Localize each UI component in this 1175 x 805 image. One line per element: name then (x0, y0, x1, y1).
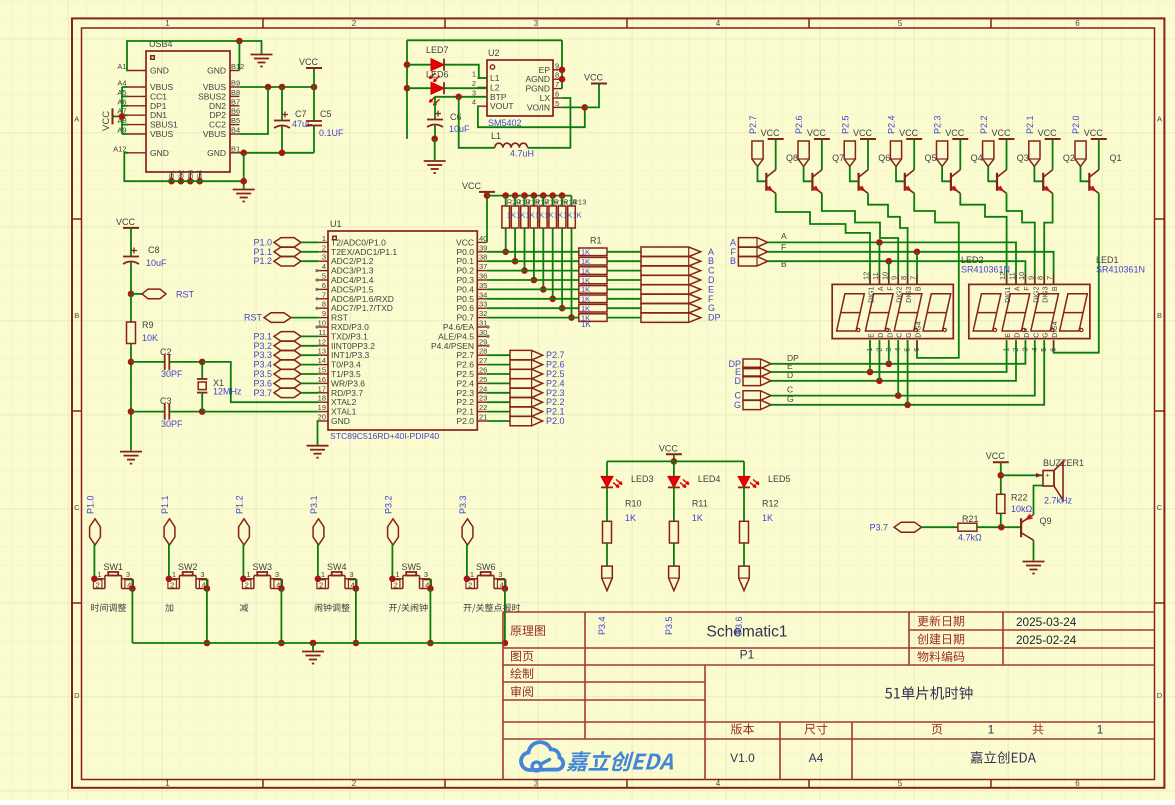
svg-text:1: 1 (988, 723, 995, 737)
svg-text:32: 32 (479, 309, 487, 318)
svg-text:5: 5 (898, 19, 903, 28)
svg-text:B: B (1157, 311, 1162, 320)
svg-text:S4: S4 (197, 170, 204, 179)
svg-text:Q8: Q8 (786, 153, 798, 163)
svg-text:E: E (1005, 333, 1012, 338)
svg-text:1K: 1K (692, 513, 703, 523)
svg-text:8: 8 (899, 276, 908, 280)
svg-text:B: B (730, 256, 736, 266)
svg-text:B6: B6 (231, 107, 240, 116)
svg-text:5: 5 (555, 99, 559, 108)
svg-text:1K: 1K (581, 320, 591, 329)
svg-text:4.7uH: 4.7uH (510, 149, 534, 159)
svg-text:9: 9 (890, 276, 899, 280)
svg-text:8: 8 (555, 71, 559, 80)
svg-text:VCC: VCC (991, 128, 1011, 138)
svg-text:DIG1: DIG1 (1005, 286, 1012, 302)
svg-text:6: 6 (322, 281, 326, 290)
svg-text:34: 34 (479, 290, 487, 299)
svg-text:30PF: 30PF (161, 419, 183, 429)
svg-text:11: 11 (871, 272, 880, 280)
svg-text:B: B (1052, 286, 1059, 291)
svg-text:22: 22 (479, 403, 487, 412)
svg-text:39: 39 (479, 243, 487, 252)
svg-text:B: B (916, 286, 923, 291)
svg-text:G: G (906, 332, 913, 337)
svg-text:A: A (1157, 115, 1162, 124)
svg-text:12: 12 (318, 337, 326, 346)
svg-text:DIG3: DIG3 (906, 286, 913, 302)
svg-text:3: 3 (424, 570, 428, 579)
svg-text:VCC: VCC (584, 73, 604, 83)
svg-text:Q3: Q3 (1017, 153, 1029, 163)
svg-text:18: 18 (318, 394, 326, 403)
svg-text:0.1UF: 0.1UF (319, 128, 344, 138)
svg-text:P2.3: P2.3 (933, 115, 943, 134)
svg-text:16: 16 (318, 375, 326, 384)
svg-text:D: D (1015, 333, 1022, 338)
svg-text:3: 3 (200, 570, 204, 579)
svg-text:28: 28 (479, 347, 487, 356)
svg-text:U1: U1 (330, 219, 342, 229)
svg-text:VCC: VCC (299, 57, 319, 67)
svg-text:LED7: LED7 (426, 45, 449, 55)
svg-text:VCC: VCC (899, 128, 919, 138)
svg-text:4: 4 (322, 262, 326, 271)
svg-text:5: 5 (898, 779, 903, 788)
svg-text:VCC: VCC (462, 181, 482, 191)
svg-text:4: 4 (716, 779, 721, 788)
svg-text:12: 12 (862, 272, 871, 280)
svg-text:1K: 1K (581, 295, 590, 304)
svg-text:P3.1: P3.1 (309, 495, 319, 514)
svg-text:9: 9 (1026, 276, 1035, 280)
svg-text:1: 1 (172, 570, 176, 579)
svg-text:1K: 1K (573, 211, 582, 220)
svg-text:VBUS: VBUS (150, 129, 173, 139)
svg-text:6: 6 (555, 90, 559, 99)
svg-text:VBUS: VBUS (203, 129, 226, 139)
svg-text:B1: B1 (231, 144, 240, 153)
svg-text:9: 9 (322, 309, 326, 318)
svg-text:P2.0: P2.0 (546, 416, 565, 426)
svg-text:C7: C7 (295, 109, 307, 119)
svg-text:F: F (781, 242, 786, 252)
svg-text:11: 11 (1008, 272, 1017, 280)
svg-text:Q1: Q1 (1110, 153, 1122, 163)
svg-text:LED4: LED4 (698, 474, 721, 484)
svg-text:1: 1 (165, 19, 170, 28)
svg-text:6: 6 (1049, 348, 1058, 352)
svg-text:L1: L1 (491, 131, 501, 141)
svg-text:GND: GND (207, 148, 226, 158)
svg-text:VO/IN: VO/IN (527, 102, 550, 112)
svg-text:7: 7 (909, 276, 918, 280)
svg-text:P3.2: P3.2 (384, 495, 394, 514)
svg-text:V1.0: V1.0 (730, 751, 755, 765)
svg-text:VCC: VCC (659, 443, 679, 453)
svg-text:B7: B7 (231, 97, 240, 106)
svg-text:17: 17 (318, 384, 326, 393)
svg-text:R21: R21 (962, 514, 979, 524)
svg-text:30PF: 30PF (161, 369, 183, 379)
svg-text:C: C (1033, 333, 1040, 338)
svg-text:3: 3 (322, 253, 326, 262)
svg-text:35: 35 (479, 281, 487, 290)
svg-text:VCC: VCC (1084, 128, 1104, 138)
svg-text:C8: C8 (148, 245, 160, 255)
svg-text:1K: 1K (762, 513, 773, 523)
svg-text:VCC: VCC (945, 128, 965, 138)
svg-text:VCC: VCC (807, 128, 827, 138)
svg-text:P2.4: P2.4 (887, 115, 897, 134)
svg-text:D: D (735, 376, 742, 386)
svg-text:Q2: Q2 (1063, 153, 1075, 163)
svg-text:R12: R12 (762, 499, 779, 509)
svg-text:3: 3 (349, 570, 353, 579)
svg-text:LED2: LED2 (961, 255, 984, 265)
svg-text:38: 38 (479, 253, 487, 262)
svg-text:P3.5: P3.5 (664, 616, 674, 635)
svg-text:3: 3 (275, 570, 279, 579)
svg-text:VCC: VCC (1038, 128, 1058, 138)
svg-text:DIG3: DIG3 (1043, 286, 1050, 302)
svg-text:4: 4 (472, 98, 476, 107)
svg-text:DIG2: DIG2 (897, 286, 904, 302)
svg-text:DIG1: DIG1 (869, 286, 876, 302)
svg-text:LED5: LED5 (768, 474, 791, 484)
svg-text:C: C (1157, 503, 1163, 512)
svg-text:U2: U2 (488, 48, 500, 58)
svg-text:Q6: Q6 (878, 153, 890, 163)
svg-text:G: G (734, 400, 741, 410)
svg-text:1: 1 (1097, 723, 1104, 737)
svg-text:15: 15 (318, 366, 326, 375)
svg-text:SW3: SW3 (253, 562, 273, 572)
svg-text:VCC: VCC (853, 128, 873, 138)
svg-text:B8: B8 (231, 88, 240, 97)
svg-text:33: 33 (479, 300, 487, 309)
svg-text:P2.5: P2.5 (840, 115, 850, 134)
svg-text:2: 2 (352, 19, 357, 28)
svg-text:1: 1 (395, 570, 399, 579)
svg-text:25: 25 (479, 375, 487, 384)
svg-text:GND: GND (150, 148, 169, 158)
svg-text:A: A (74, 115, 79, 124)
svg-text:D: D (878, 333, 885, 338)
svg-text:27: 27 (479, 356, 487, 365)
svg-text:26: 26 (479, 366, 487, 375)
svg-text:B5: B5 (231, 116, 240, 125)
svg-text:A4: A4 (809, 751, 824, 765)
svg-text:2: 2 (472, 79, 476, 88)
svg-text:SW2: SW2 (178, 562, 198, 572)
svg-text:S3: S3 (188, 170, 195, 179)
svg-text:2: 2 (322, 243, 326, 252)
svg-text:Q9: Q9 (1040, 516, 1052, 526)
svg-text:7: 7 (322, 290, 326, 299)
svg-text:R13: R13 (573, 198, 587, 207)
svg-text:DP: DP (887, 328, 894, 338)
svg-text:9: 9 (555, 61, 559, 70)
svg-text:2.7kHz: 2.7kHz (1044, 496, 1073, 506)
svg-text:LED6: LED6 (426, 70, 449, 80)
svg-text:P1.1: P1.1 (160, 495, 170, 514)
svg-text:4: 4 (716, 19, 721, 28)
svg-text:10kΩ: 10kΩ (1011, 504, 1033, 514)
svg-text:13: 13 (318, 347, 326, 356)
svg-text:30: 30 (479, 328, 487, 337)
svg-text:GND: GND (331, 416, 350, 426)
svg-text:3: 3 (498, 570, 502, 579)
svg-text:2025-03-24: 2025-03-24 (1016, 615, 1077, 629)
svg-text:B12: B12 (231, 62, 244, 71)
svg-text:VCC: VCC (116, 217, 136, 227)
svg-text:2: 2 (352, 779, 357, 788)
svg-text:STC89C516RD+40I-PDIP40: STC89C516RD+40I-PDIP40 (330, 431, 439, 441)
svg-text:G: G (1043, 332, 1050, 337)
svg-text:10: 10 (1017, 272, 1026, 280)
svg-text:A: A (781, 231, 787, 241)
svg-text:P3.7: P3.7 (869, 523, 888, 533)
svg-text:1K: 1K (581, 304, 590, 313)
svg-text:12: 12 (998, 272, 1007, 280)
svg-text:3: 3 (126, 570, 130, 579)
svg-text:14: 14 (318, 356, 326, 365)
svg-text:B9: B9 (231, 79, 240, 88)
svg-text:VCC: VCC (101, 111, 112, 131)
svg-text:10K: 10K (142, 333, 158, 343)
svg-text:1: 1 (321, 570, 325, 579)
svg-text:A: A (1015, 286, 1022, 291)
svg-text:7: 7 (1045, 276, 1054, 280)
svg-text:40: 40 (479, 234, 487, 243)
svg-text:3: 3 (534, 779, 539, 788)
svg-text:D: D (74, 691, 80, 700)
svg-text:R9: R9 (142, 320, 154, 330)
svg-text:P2.7: P2.7 (748, 115, 758, 134)
svg-text:36: 36 (479, 272, 487, 281)
svg-text:DP: DP (708, 313, 721, 323)
svg-text:E: E (869, 333, 876, 338)
svg-text:C: C (74, 503, 80, 512)
svg-text:1: 1 (470, 570, 474, 579)
svg-text:31: 31 (479, 319, 487, 328)
svg-text:1K: 1K (581, 285, 590, 294)
svg-text:1K: 1K (581, 276, 590, 285)
svg-text:10: 10 (880, 272, 889, 280)
svg-text:37: 37 (479, 262, 487, 271)
svg-text:10: 10 (318, 319, 326, 328)
svg-text:12MHz: 12MHz (213, 387, 242, 397)
svg-text:11: 11 (318, 328, 326, 337)
svg-text:RST: RST (244, 313, 263, 323)
svg-text:3: 3 (534, 19, 539, 28)
svg-text:F: F (1024, 287, 1031, 291)
svg-text:21: 21 (479, 413, 487, 422)
svg-text:10uF: 10uF (146, 258, 167, 268)
svg-text:2025-02-24: 2025-02-24 (1016, 633, 1077, 647)
svg-text:P2.0: P2.0 (457, 416, 475, 426)
svg-text:1K: 1K (625, 513, 636, 523)
svg-text:19: 19 (318, 403, 326, 412)
svg-text:SW5: SW5 (402, 562, 422, 572)
svg-text:P3.7: P3.7 (253, 388, 272, 398)
svg-text:8: 8 (322, 300, 326, 309)
svg-text:P1.2: P1.2 (253, 256, 272, 266)
svg-text:6: 6 (912, 348, 921, 352)
svg-text:Q7: Q7 (832, 153, 844, 163)
svg-text:Q5: Q5 (925, 153, 937, 163)
svg-text:5: 5 (322, 272, 326, 281)
svg-text:23: 23 (479, 394, 487, 403)
svg-text:8: 8 (1036, 276, 1045, 280)
svg-text:LED3: LED3 (631, 474, 654, 484)
svg-text:P1.2: P1.2 (235, 495, 245, 514)
svg-text:GND: GND (150, 66, 169, 76)
svg-text:RST: RST (176, 290, 195, 300)
svg-text:Q4: Q4 (971, 153, 983, 163)
svg-text:6: 6 (1075, 19, 1080, 28)
svg-text:P3.4: P3.4 (597, 616, 607, 635)
svg-text:DIG2: DIG2 (1033, 286, 1040, 302)
svg-text:+: + (1046, 473, 1050, 480)
svg-text:S2: S2 (178, 170, 185, 179)
svg-text:P2.2: P2.2 (979, 115, 989, 134)
svg-text:P1: P1 (740, 648, 755, 662)
svg-text:VOUT: VOUT (490, 101, 514, 111)
svg-text:4.7kΩ: 4.7kΩ (958, 533, 982, 543)
svg-text:P1.0: P1.0 (86, 495, 96, 514)
svg-text:1: 1 (322, 234, 326, 243)
svg-text:P3.3: P3.3 (458, 495, 468, 514)
svg-text:S1: S1 (169, 170, 176, 179)
svg-text:SW4: SW4 (327, 562, 347, 572)
svg-text:24: 24 (479, 384, 487, 393)
svg-text:C: C (897, 333, 904, 338)
svg-text:1: 1 (165, 779, 170, 788)
svg-text:R10: R10 (625, 499, 642, 509)
svg-text:C5: C5 (320, 109, 332, 119)
svg-text:7: 7 (555, 80, 559, 89)
svg-text:29: 29 (479, 337, 487, 346)
svg-text:SR410361N: SR410361N (1096, 265, 1145, 275)
svg-text:P2.1: P2.1 (1025, 115, 1035, 134)
svg-text:DIG4: DIG4 (916, 321, 923, 337)
svg-text:LED1: LED1 (1096, 255, 1119, 265)
svg-text:VCC: VCC (986, 451, 1006, 461)
svg-text:Schematic1: Schematic1 (707, 624, 788, 641)
svg-text:SW1: SW1 (104, 562, 124, 572)
svg-text:D: D (1157, 691, 1163, 700)
svg-text:B4: B4 (231, 126, 240, 135)
svg-text:20: 20 (318, 413, 326, 422)
svg-text:B: B (74, 311, 79, 320)
svg-text:A1: A1 (117, 62, 126, 71)
svg-text:P2.6: P2.6 (794, 115, 804, 134)
svg-text:R1: R1 (590, 236, 602, 246)
svg-text:R22: R22 (1011, 493, 1028, 503)
svg-text:6: 6 (1075, 779, 1080, 788)
svg-text:1K: 1K (581, 257, 590, 266)
svg-text:1K: 1K (581, 266, 590, 275)
svg-text:1: 1 (97, 570, 101, 579)
svg-text:A: A (878, 286, 885, 291)
svg-text:GND: GND (207, 66, 226, 76)
svg-text:VCC: VCC (761, 128, 781, 138)
svg-text:F: F (887, 287, 894, 291)
svg-text:C6: C6 (450, 112, 462, 122)
svg-text:R11: R11 (692, 499, 708, 509)
svg-text:1K: 1K (581, 248, 590, 257)
svg-text:DIG4: DIG4 (1052, 321, 1059, 337)
svg-text:P2.0: P2.0 (1071, 115, 1081, 134)
svg-text:1: 1 (246, 570, 250, 579)
svg-text:1: 1 (472, 70, 476, 79)
svg-text:DP: DP (1024, 328, 1031, 338)
svg-text:SW6: SW6 (476, 562, 496, 572)
